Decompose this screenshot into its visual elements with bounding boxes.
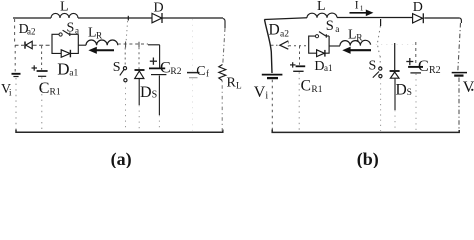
svg-text:R1: R1 (50, 88, 61, 98)
capacitor CR2 (a) (149, 45, 182, 131)
svg-text:C: C (301, 78, 311, 95)
svg-text:S: S (113, 60, 121, 75)
svg-text:(b): (b) (357, 149, 379, 168)
svg-text:D: D (57, 60, 69, 79)
svg-text:a1: a1 (69, 69, 78, 79)
wire left rail (b) (265, 20, 273, 74)
svg-text:D: D (140, 84, 152, 101)
svg-text:a2: a2 (27, 27, 36, 37)
node cross at branch (a) (125, 42, 127, 48)
svg-text:R: R (356, 34, 363, 44)
switch S (a) (113, 48, 127, 132)
svg-text:S: S (152, 90, 158, 101)
svg-text:R2: R2 (170, 67, 181, 77)
svg-text:S: S (369, 59, 377, 74)
svg-text:a2: a2 (280, 29, 289, 39)
capacitor CR2 (b) (406, 42, 440, 131)
svg-text:1: 1 (360, 4, 364, 13)
arrow current I1 (b) (350, 0, 374, 16)
switch S (b) (369, 56, 383, 131)
svg-text:a: a (75, 26, 79, 36)
svg-text:S: S (407, 88, 412, 98)
diode Ds (b) (390, 43, 412, 131)
svg-text:V: V (463, 79, 474, 96)
svg-text:V: V (254, 84, 266, 101)
diode Ds (a) (135, 47, 158, 131)
svg-text:R1: R1 (311, 85, 322, 95)
svg-text:I: I (355, 0, 359, 12)
battery Vi (a) (1, 74, 21, 131)
svg-text:L: L (236, 82, 242, 92)
switch Sa with box (b) (309, 18, 340, 46)
wire S vertical from top wire (b) (377, 19, 380, 56)
wire left rail (a) (14, 19, 17, 72)
wire branch from left rail to Da2 (a) (15, 44, 24, 46)
battery Vo (b) (452, 73, 474, 131)
inductor L (a) (51, 0, 78, 18)
svg-text:R2: R2 (429, 65, 441, 76)
arrow current iLR (b) (342, 47, 371, 54)
svg-text:S: S (326, 18, 334, 34)
svg-text:C: C (196, 64, 205, 79)
diode Da2 (b) (269, 22, 290, 50)
svg-text:R: R (227, 76, 237, 91)
svg-text:D: D (269, 22, 280, 39)
svg-text:D: D (314, 59, 324, 74)
svg-text:C: C (39, 80, 50, 97)
svg-text:D: D (413, 0, 423, 15)
wire box to LR (b) (329, 45, 340, 47)
switch Sa with box (a) (52, 21, 79, 45)
svg-text:L: L (317, 0, 326, 14)
inductor L (b) (307, 0, 337, 18)
wire top (b) (264, 18, 460, 20)
capacitor CR1 (a) (32, 46, 61, 131)
wire Da2 to box (b) (289, 45, 309, 47)
arrow current iLR (a) (88, 47, 114, 54)
wire right rail (b) (458, 18, 462, 72)
resistor RL (a) (219, 65, 242, 132)
inductor LR (a) (86, 25, 118, 46)
svg-text:S: S (67, 21, 75, 36)
svg-text:i: i (9, 88, 12, 98)
node S-branch junction on top wire (a) (127, 16, 129, 21)
svg-text:f: f (206, 69, 209, 79)
diode D (b) (413, 0, 424, 23)
wire top (a) (13, 17, 223, 19)
wire rail to Da2 (b) (271, 44, 278, 46)
svg-text:(a): (a) (111, 149, 132, 168)
svg-text:L: L (60, 0, 69, 15)
battery Vi (b) (254, 75, 283, 131)
diode Da1 in box (b) (309, 46, 333, 74)
diode D (a) (152, 1, 164, 24)
capacitor CR1 (b) (290, 46, 323, 131)
wire bottom (b) (272, 130, 459, 133)
diode Da1 in box (a) (52, 45, 79, 79)
svg-text:C: C (418, 58, 429, 75)
wire LR to CR2 branch (a) (118, 43, 160, 46)
wire right rail (a) (223, 19, 225, 28)
svg-text:a1: a1 (324, 63, 333, 73)
svg-text:a: a (335, 25, 339, 35)
node cross Ds at branch (a) (138, 42, 140, 47)
inductor LR (b) (340, 27, 371, 46)
wire Da2 to box (a) (33, 44, 52, 46)
svg-text:i: i (265, 90, 268, 101)
svg-text:R: R (96, 32, 103, 42)
wire bottom (a) (16, 130, 223, 133)
wire branch LR to CR2 faint (b) (371, 44, 416, 46)
svg-text:L: L (348, 27, 356, 42)
capacitor Cf (a) (187, 19, 209, 131)
wire box to LR (a) (78, 44, 86, 46)
svg-text:C: C (160, 60, 171, 77)
wire S vertical from top wire (a) (126, 21, 128, 43)
svg-text:D: D (396, 82, 407, 99)
svg-text:D: D (154, 1, 164, 16)
diode Da2 (a) (19, 21, 36, 49)
